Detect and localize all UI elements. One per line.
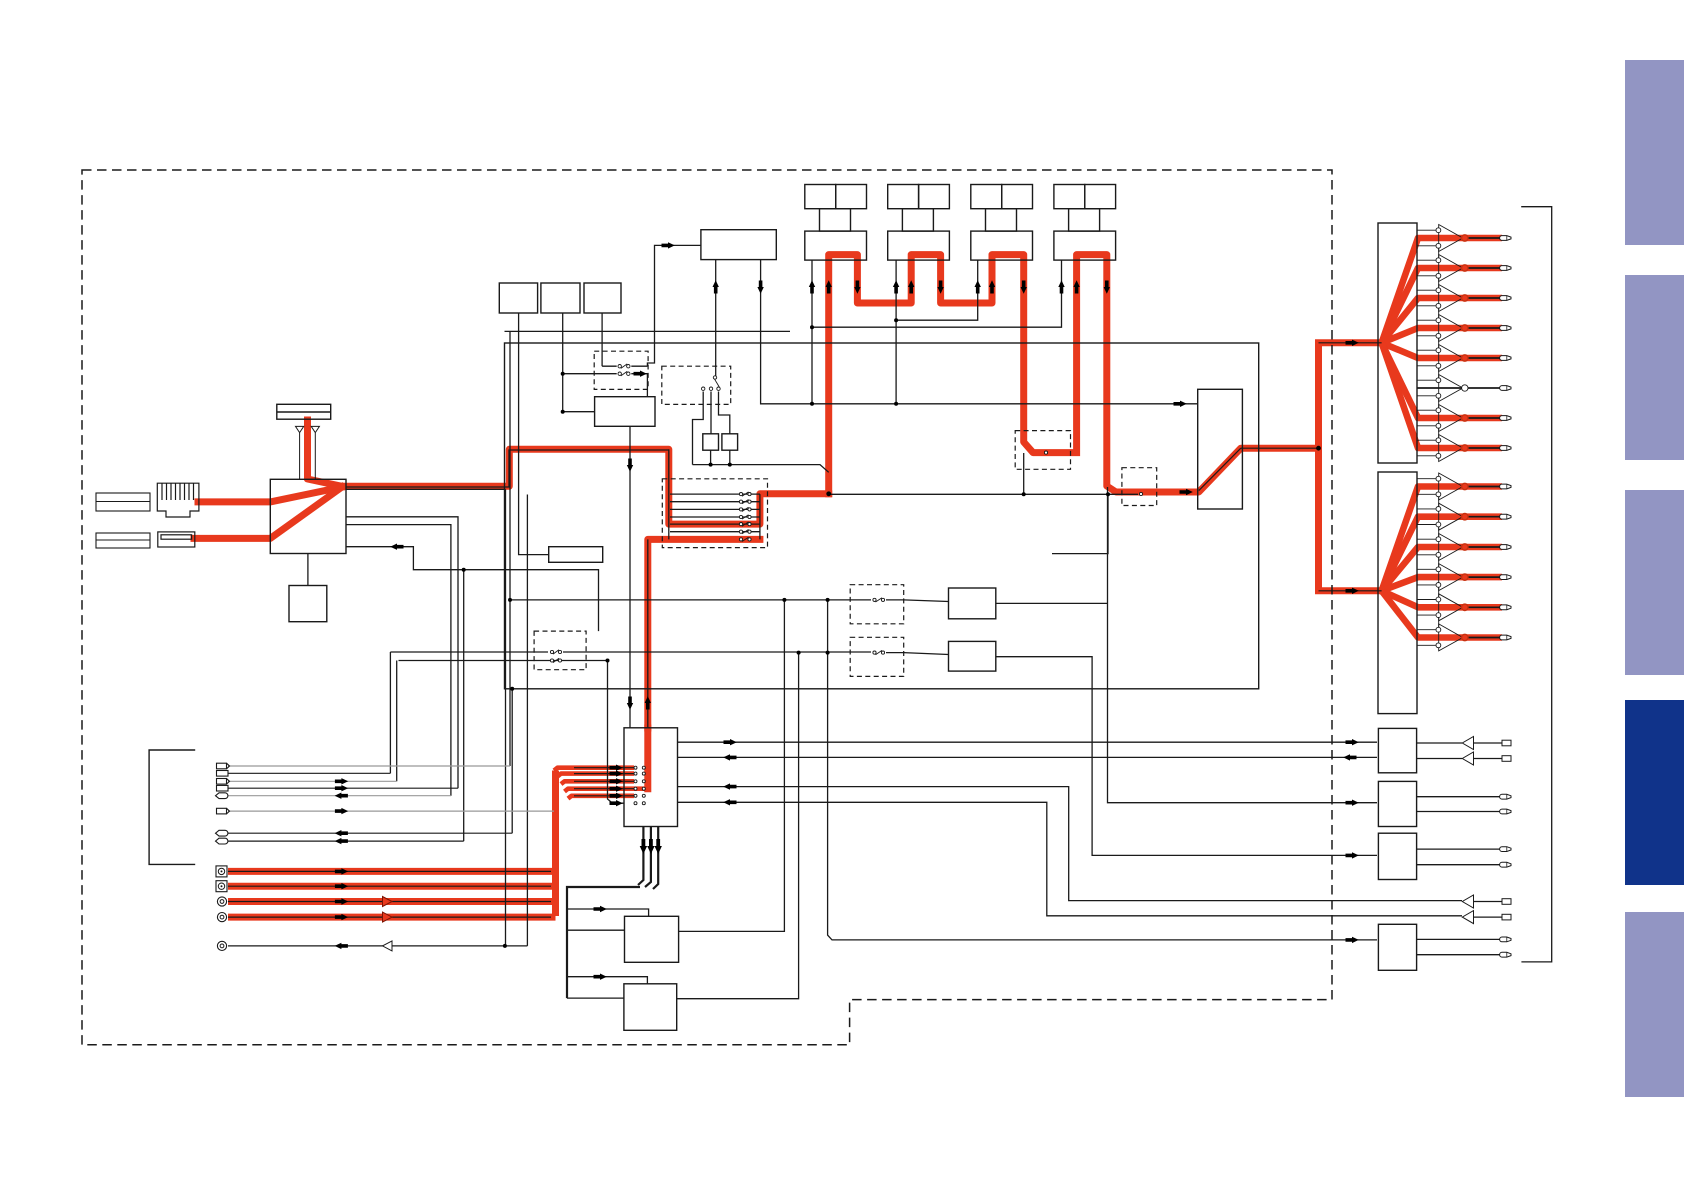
jack B2 b <box>1500 809 1511 814</box>
dashed box d8 7-row switch <box>662 479 767 548</box>
wire codec red row3 <box>561 781 634 784</box>
op-amp row 516 <box>1417 503 1463 537</box>
arrow B1 in <box>1346 739 1359 745</box>
arrow red to fan2 <box>1346 588 1359 594</box>
wire row3 781 <box>228 780 397 782</box>
wire black x1107 vertical to B2 <box>1108 487 1378 803</box>
wire branch to box1 top <box>567 909 649 916</box>
wire red vertical distribution to DAC fans <box>1319 343 1382 591</box>
wire x827 vertical to B4 <box>828 600 1377 940</box>
dashed box d4 <box>850 585 904 624</box>
node black 1023 <box>1022 492 1026 496</box>
right small box 2 <box>949 641 996 671</box>
wire codec red row5 <box>568 796 634 799</box>
switch d1 row2 <box>618 371 630 376</box>
wire riser row1 <box>509 331 511 766</box>
wire codec out 786 to right jack row <box>678 787 1463 901</box>
arrow row4 right <box>335 785 348 791</box>
wire out row 547 <box>1465 544 1502 551</box>
arrow g1 ddc up <box>809 280 815 293</box>
arrow EQ down 465 <box>627 459 633 472</box>
dashed box d7 <box>1122 468 1157 506</box>
wire fan2 row4 <box>1382 577 1465 591</box>
connector row2 <box>217 771 229 777</box>
wire branch to box1 left <box>567 929 625 931</box>
top small box 1 <box>499 283 537 313</box>
wire codec out 802 to right jack row <box>678 802 1463 916</box>
out box B4 <box>1378 924 1416 970</box>
arrow codec in757 a <box>723 754 736 760</box>
switch d6 contact <box>1044 451 1047 454</box>
right small box 1 <box>949 588 996 619</box>
wire tuner out 546 jog <box>346 547 599 631</box>
wire antenna red drop into tuner fan <box>308 420 343 486</box>
switch box rows 2,3,4,6 <box>670 502 760 532</box>
arrow codec in786 <box>723 783 736 789</box>
jack out 388 <box>1500 386 1511 391</box>
antenna symbol 1 <box>296 426 304 440</box>
jack B3 b <box>1500 862 1511 867</box>
wire riser row2 <box>389 652 391 773</box>
wire EQ input line <box>563 411 595 413</box>
wire branch to box2 top <box>567 977 647 984</box>
wire B1 outputs <box>1417 743 1502 759</box>
arrow phono3 <box>335 898 348 904</box>
op-amp row 358 <box>1417 345 1463 378</box>
wire codec red row2 <box>558 774 635 777</box>
buffer B1 out2 left <box>1462 752 1473 765</box>
op-amp row 486 <box>1417 473 1463 507</box>
wire phono row2 <box>228 883 556 890</box>
wire video switch contact2 to S1 <box>710 392 712 434</box>
arrow into DSP box <box>662 242 675 248</box>
arrow phono4 <box>335 914 348 920</box>
node black 1108 <box>1106 492 1110 496</box>
tab 2 <box>1625 275 1684 460</box>
arrow codec row2 <box>610 770 623 776</box>
wire row6 811 <box>228 810 554 812</box>
wire out row 516 <box>1465 513 1502 520</box>
connector phono4 <box>217 913 226 922</box>
wire B4 outputs <box>1417 939 1502 954</box>
wire fan1 row7 <box>1382 343 1465 418</box>
wire DSP box input line <box>647 245 701 366</box>
hdmi g1 boxes <box>805 185 867 261</box>
S1 box <box>703 434 719 450</box>
wire video switch contact1 path <box>693 392 704 465</box>
dashed box d1 <box>594 351 648 389</box>
left speaker bracket <box>149 750 195 864</box>
wire tuner out 524 <box>346 525 451 796</box>
wire top box3 output vertical <box>601 313 603 366</box>
op-amp row 448 <box>1417 435 1463 462</box>
jack hp b <box>1502 914 1511 920</box>
wire top nested bus y331 <box>505 330 791 332</box>
arrow codec row1 <box>610 765 623 771</box>
upper DAC fan red lines <box>1382 238 1465 638</box>
jack out 328 <box>1500 326 1511 331</box>
wire fan1 row4 <box>1382 328 1465 343</box>
wire out row 238 <box>1465 235 1502 242</box>
connector row4 <box>217 785 229 791</box>
connector row3 <box>217 779 230 785</box>
arrow B2 in <box>1346 800 1359 806</box>
antenna symbol 2 <box>311 426 319 440</box>
wire core R1 diagonal <box>1199 448 1241 490</box>
wire RJ45 red into tuner fan <box>198 487 342 502</box>
switch d2 video pivot <box>702 376 721 391</box>
wire row4 788 <box>228 787 458 789</box>
wire B2 outputs <box>1417 797 1502 812</box>
jack out 486 <box>1500 484 1511 489</box>
arrow g2 right leg down <box>937 281 943 294</box>
wire d1 switch row2 <box>563 374 648 397</box>
wire out row 358 <box>1465 355 1502 362</box>
label box left 2 <box>96 533 150 548</box>
connector rowE <box>217 941 226 950</box>
arrow g1 right leg down <box>854 281 860 294</box>
codec box <box>624 728 678 827</box>
hdmi g4 boxes <box>1054 185 1116 261</box>
wire g3 ddc vertical <box>896 260 978 320</box>
wire riser row7 <box>511 689 513 833</box>
connector row5 <box>216 793 228 799</box>
wire g2 ddc vertical <box>895 260 897 404</box>
wire collector to bottom boxes <box>567 887 640 998</box>
arrow red into R1 <box>1180 489 1193 495</box>
node S1 bus <box>709 463 713 467</box>
node riserA <box>782 598 786 602</box>
wire out row 577 <box>1465 574 1502 581</box>
arrow codec bottom2 down <box>647 839 654 854</box>
jack B4 b <box>1500 952 1511 957</box>
box B <box>549 547 603 563</box>
wire fan1 row1 <box>1382 238 1465 343</box>
node riserB <box>797 651 801 655</box>
node bus403 g2 <box>894 402 898 406</box>
wire red HDMI chain g1-g4 <box>829 255 1194 494</box>
wire fan1 row3 <box>1382 298 1465 343</box>
wire riser B codec sub2 <box>677 653 799 999</box>
wire riser A codec sub1 <box>679 600 785 932</box>
buffer phono3 red <box>383 897 393 907</box>
arrow codec row5 <box>610 793 623 799</box>
switch d7 contact <box>1139 492 1142 495</box>
codec sub box1 <box>625 916 679 962</box>
wire black under g3 jog down <box>1023 453 1025 494</box>
jack B4 a <box>1500 937 1511 942</box>
wire out row 607 <box>1465 604 1502 611</box>
arrow row7 left <box>335 830 348 836</box>
wire core codec stair rows <box>574 768 634 796</box>
switch d1 row1 <box>618 364 630 369</box>
wire row7 833 <box>228 832 512 834</box>
dashed box d6 <box>1015 431 1070 470</box>
arrow B4 in <box>1346 937 1359 943</box>
op-amp row 607 <box>1417 594 1463 628</box>
wire out row 328 <box>1465 325 1502 332</box>
EQ box <box>595 397 655 427</box>
arrow row5 left <box>335 793 348 799</box>
wire rowE riser <box>526 495 528 946</box>
node riser row7 <box>510 687 514 691</box>
op-amp row 328 <box>1417 315 1463 348</box>
wire right output bracket <box>1521 207 1552 962</box>
wire fan2 row2 <box>1382 517 1465 591</box>
switch d8 rows <box>739 492 751 542</box>
jack out 268 <box>1500 266 1511 271</box>
wire fan2 row5 <box>1382 591 1465 608</box>
jack out 547 <box>1500 545 1511 550</box>
wire out row 637 <box>1465 634 1502 641</box>
label box left 1 <box>96 493 150 511</box>
arrow rowE left <box>335 943 348 949</box>
arrow EQ down 702 <box>627 697 633 710</box>
op-amp row 268 <box>1417 255 1463 288</box>
op-amp row 238 <box>1417 225 1463 258</box>
arrow g3 left leg up <box>989 280 995 293</box>
jack out 637 <box>1500 635 1511 640</box>
wire small box right line y603 <box>996 602 1108 604</box>
wire core phono rows <box>228 871 551 917</box>
wire fan1 row8 <box>1382 343 1465 448</box>
arrow codec row4 <box>610 786 623 792</box>
wire antenna leads to tuner <box>300 440 316 479</box>
wire fan2 row6 <box>1382 591 1465 638</box>
wire fan2 row3 <box>1382 547 1465 591</box>
wire codec out 742 to B1 <box>678 741 1378 743</box>
connector phono3 <box>217 897 226 906</box>
arrow B3 in <box>1346 852 1359 858</box>
connector row8 <box>216 838 228 844</box>
arrow d1 row2 <box>634 371 647 377</box>
out box B2 <box>1378 781 1416 826</box>
wire B3 outputs <box>1417 849 1502 865</box>
amp row 388 output circle (no signal) <box>1462 385 1468 391</box>
op-amp row 388 <box>1417 375 1463 408</box>
node red junction 494 <box>826 491 831 496</box>
wire phono row4 <box>228 914 556 921</box>
jack B1 b <box>1502 756 1511 762</box>
wire g1 ddc vertical <box>811 260 813 404</box>
node g1 bus <box>810 325 814 329</box>
wire branch to box2 left <box>567 997 624 999</box>
wire red trunk <box>552 771 559 917</box>
wire EQ output down to codec <box>629 426 631 728</box>
arrow codec row6 <box>610 800 623 806</box>
arrow box1 top in <box>594 906 607 912</box>
wire core R1 to fan column <box>1241 343 1382 591</box>
arrow codec row3 <box>610 778 623 784</box>
wire out row 298 <box>1465 295 1502 302</box>
node bus599 riser1 <box>508 598 512 602</box>
top small box 3 <box>584 283 621 313</box>
arrow row3 right <box>335 778 348 784</box>
hdmi g2 boxes <box>888 185 950 261</box>
jack B1 a <box>1502 740 1511 746</box>
wire codec bottom 3 lines <box>638 827 658 890</box>
wire row5 795 <box>228 795 451 797</box>
tab 5 <box>1625 912 1684 1097</box>
arrow box2 top in <box>594 974 607 980</box>
connector row1 <box>217 763 230 769</box>
out box B3 <box>1378 833 1416 879</box>
wire phono row3 <box>228 898 556 905</box>
arrow tuner line left 546 <box>390 544 403 550</box>
jack B3 a <box>1500 847 1511 852</box>
switch d3 rows <box>550 650 561 654</box>
wire g4 ddc vertical <box>812 260 1062 327</box>
HDMI input groups <box>805 185 1116 261</box>
node S2 bus <box>728 463 732 467</box>
arrow codec bottom1 down <box>640 839 647 854</box>
arrow red to fan1 <box>1346 340 1359 346</box>
RJ45 jack <box>157 483 199 517</box>
wire row8 841 <box>228 840 464 842</box>
node red R1 out <box>1316 446 1321 451</box>
wire bus 660 to codec row6 <box>399 661 625 804</box>
tab 4 dark <box>1625 700 1684 885</box>
arrow g2 ddc up <box>893 280 899 293</box>
connector row7 <box>216 830 228 836</box>
op-amp row 298 <box>1417 285 1463 318</box>
amp input circles <box>1436 228 1441 648</box>
thicker record-out collector <box>567 827 658 999</box>
right side output connectors <box>1500 236 1511 958</box>
phono red rows and trunk to codec <box>228 771 556 918</box>
wire video switch contact3 to S2 <box>719 392 730 434</box>
arrow up DSP out1 <box>713 280 719 293</box>
wire tuner bottom to sub box <box>307 554 309 586</box>
wire row1 766 <box>228 765 510 767</box>
wire top box2 output vertical <box>562 313 564 412</box>
wire riser row3 <box>396 661 398 782</box>
connector phono2 <box>216 881 227 892</box>
wire top box1 output to box B <box>519 313 549 555</box>
buffer B1 out1 left <box>1462 737 1473 750</box>
wire phono row1 <box>228 868 556 875</box>
arrow codec out742 a <box>724 739 737 745</box>
arrow down DSP out2 <box>757 281 763 294</box>
node rowE join <box>503 944 507 948</box>
node g2 bus <box>894 318 898 322</box>
main dashed border <box>82 170 1332 1045</box>
wire core fan outputs <box>1417 238 1502 448</box>
left connector row lines <box>228 766 554 946</box>
red output stubs from amp circles to RCA connectors <box>1465 238 1502 638</box>
arrow g2 left leg up <box>908 280 914 293</box>
op-amp row 637 <box>1417 624 1463 651</box>
arrow bus403 into R1 <box>1174 401 1187 407</box>
wire black core under main red route <box>346 449 760 728</box>
wire red into selector R1 and diagonal <box>1194 448 1319 492</box>
node bus660 x607 <box>606 659 610 663</box>
out box B1 <box>1378 728 1416 772</box>
node EQ in <box>561 410 565 414</box>
box below tuner <box>289 586 327 622</box>
wire riser row8 <box>463 570 465 841</box>
jack out 577 <box>1500 575 1511 580</box>
wire d1 switch row1 <box>602 365 647 367</box>
arrow g4 right leg down <box>1104 281 1110 294</box>
wire bus 464 to red junction <box>693 465 829 473</box>
wire fan1 row2 <box>1382 268 1465 343</box>
jack out 358 <box>1500 356 1511 361</box>
buffer rowE left <box>383 941 393 951</box>
wire bus 652 to d3 and d5 <box>390 652 948 655</box>
DAC2 box <box>1378 472 1417 714</box>
arrow g4 left leg up <box>1073 280 1079 293</box>
jack out 607 <box>1500 605 1511 610</box>
wire red codec internal vertical <box>644 728 651 789</box>
wire codec internal red join <box>634 786 648 791</box>
arrow g3 right leg down <box>1021 281 1027 294</box>
node riser row8 <box>462 568 466 572</box>
antenna bar box <box>277 404 331 419</box>
wire codec red row1 <box>554 768 634 771</box>
connector row6 <box>217 808 230 814</box>
dashed box d3 record switch <box>534 631 586 670</box>
wire codec in 757 from B1 <box>678 756 1378 758</box>
wire S1 S2 to bus 464 <box>711 450 730 464</box>
tuner box <box>270 479 346 553</box>
DAC1 box <box>1378 223 1417 463</box>
dashed box d2 video switch <box>662 366 731 404</box>
wire rowE 945 <box>228 945 527 947</box>
wire under-red branch vertical <box>505 489 507 946</box>
DSP top box <box>701 230 776 260</box>
arrow row8 left <box>335 838 348 844</box>
big DSP board box <box>505 343 1259 689</box>
jack out 448 <box>1500 446 1511 451</box>
dashed box d5 <box>850 637 904 676</box>
black cores over red <box>228 238 1502 917</box>
op-amp row 577 <box>1417 564 1463 598</box>
wire out row 418 <box>1465 415 1502 422</box>
arrow codec in802 <box>723 799 736 805</box>
wire black y494 bus from g1 leg to right <box>829 493 1138 495</box>
arrow g4 ddc up <box>1058 280 1064 293</box>
wire small box2 right line to B3 <box>996 657 1377 856</box>
node bus403 g1 <box>810 402 814 406</box>
arrow phono2 <box>335 883 348 889</box>
tab 3 <box>1625 490 1684 675</box>
jack hp a <box>1502 899 1511 905</box>
buffer phono4 red <box>383 912 393 922</box>
arrow g1 left leg up <box>826 280 832 293</box>
selector R1 box <box>1198 389 1243 509</box>
jack B2 a <box>1500 794 1511 799</box>
node d1 row2 <box>561 372 565 376</box>
wire out row 486 <box>1465 483 1502 490</box>
amp output circles <box>1462 235 1468 641</box>
buffer jack901 left <box>1462 895 1473 908</box>
arrow B1 back <box>1343 754 1356 760</box>
hdmi g3 boxes <box>971 185 1033 261</box>
arrow phono1 <box>335 868 348 874</box>
wire DSP out1 to video switch pivot <box>715 260 717 378</box>
wire out row 448 <box>1465 445 1502 452</box>
switch codec internal rows <box>634 766 645 805</box>
arrow codec red up 702 <box>645 696 651 709</box>
switch d5 <box>873 650 885 654</box>
op-amp row 418 <box>1417 405 1463 438</box>
wire tuner out 516 <box>346 517 458 788</box>
wire codec red row4 <box>565 789 635 792</box>
jack out 418 <box>1500 416 1511 421</box>
wire right jack rows triangles to plugs <box>1474 902 1503 918</box>
op-amp row 547 <box>1417 534 1463 567</box>
